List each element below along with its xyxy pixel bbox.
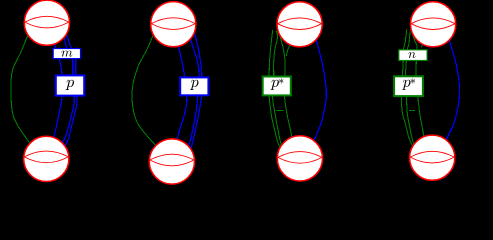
box p* D3: [263, 77, 291, 96]
hadron blob D4 top: [411, 2, 456, 47]
green quark line D3 middle: [272, 31, 283, 149]
blue quark line D2 middle: [187, 33, 199, 147]
green quark line D3 right: [279, 33, 293, 141]
hadron blob D2 top: [151, 2, 196, 47]
hadron blob D4 bottom: [410, 135, 455, 180]
green quark line D4 middle: [406, 32, 416, 148]
blue quark line D2 outer: [190, 31, 202, 149]
blue quark line D1 outer: [64, 35, 77, 148]
green quark line D4 right: [412, 33, 424, 138]
box p D1: [56, 75, 84, 95]
blue quark line D2 inner: [177, 42, 187, 139]
green quark line D3 left: [269, 30, 281, 148]
box m D1: [53, 49, 80, 59]
green stub D3: [286, 44, 290, 56]
hadron blob D3 bottom: [277, 136, 322, 181]
green quark line D2: [132, 33, 157, 147]
green stub D4: [421, 44, 423, 47]
blue quark line D1 inner: [53, 41, 63, 141]
hadron blob D1 top: [24, 0, 69, 45]
tick mark D4: [409, 110, 415, 112]
green quark line D1: [11, 34, 31, 146]
box p* D4: [394, 76, 423, 96]
blue quark line D1 middle: [61, 33, 74, 146]
tick mark D3: [277, 110, 284, 112]
hadron blob D3 top: [277, 2, 322, 47]
hadron blob D2 bottom: [149, 139, 194, 184]
box p D2: [180, 77, 208, 95]
blue quark line D4: [446, 39, 460, 141]
box n D4: [399, 50, 427, 61]
blue quark line D3: [313, 39, 326, 141]
green quark line D4 left: [401, 30, 412, 147]
hadron blob D1 bottom: [24, 136, 69, 181]
